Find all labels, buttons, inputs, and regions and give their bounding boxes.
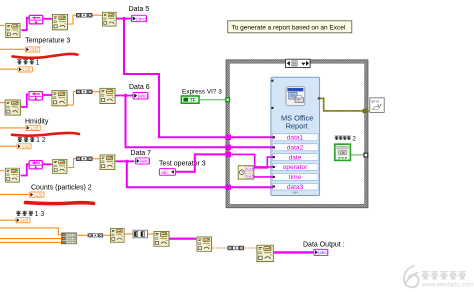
express VI row data2	[272, 144, 318, 152]
label 平均值1 3	[16, 211, 44, 218]
wire pink node to VI2 c1	[44, 18, 53, 20]
indicator Data 7	[136, 158, 150, 164]
svg-text:OK: OK	[340, 151, 346, 155]
indicator 平均值1	[18, 67, 33, 72]
wire xtrio B to VI7	[244, 247, 257, 249]
wire into VI1 c2	[0, 102, 5, 104]
wire VI1 to pink node c1	[21, 18, 28, 30]
indicator 平均值1 3	[16, 218, 30, 223]
free label: To generate a report based on an Excel	[228, 21, 352, 33]
magenta tunnel operator	[225, 152, 231, 157]
error wire junction on border	[363, 109, 368, 114]
indicator Hmidity	[26, 125, 41, 130]
wire into VI1 c3	[0, 170, 4, 172]
indicator Temperature 3	[25, 47, 40, 52]
wire Express VI? to tunnel (green)	[199, 99, 226, 101]
express VI row date	[272, 154, 318, 162]
VI icon bottom 4	[110, 228, 124, 242]
wire VI2 to xtrio c2	[68, 92, 77, 105]
multiply trio bottom A	[88, 233, 104, 237]
VI icon bottom 5	[154, 231, 169, 246]
build array node	[61, 233, 76, 244]
VI icon bottom 6	[197, 237, 212, 252]
wire pink node to VI2 c3	[43, 163, 52, 165]
OK button terminal	[335, 144, 351, 160]
VI icon c2-1	[5, 100, 20, 115]
wire xtrio to VI3 c2	[93, 91, 100, 93]
pink convert node c1	[29, 15, 43, 24]
svg-text:data2: data2	[287, 145, 304, 152]
wire VI5 to VI6 (magenta)	[170, 238, 197, 240]
wire into indicator h1	[0, 127, 25, 129]
indicator Counts	[30, 192, 45, 197]
svg-text:Counts (particles) 2: Counts (particles) 2	[31, 185, 92, 192]
express VI row data1	[272, 134, 318, 142]
OK button label 确定按钮 2	[335, 136, 357, 143]
label 平均值1	[17, 59, 39, 66]
wire Data 5 to data1 terminal	[124, 19, 273, 138]
wire VI3 to Data 7 indicator	[116, 160, 135, 162]
indicator Data 5	[132, 15, 147, 21]
multiply trio c3	[76, 157, 93, 161]
red scribble 3	[26, 203, 94, 204]
svg-text:Report: Report	[286, 121, 308, 130]
express VI edge terminals	[271, 80, 320, 109]
svg-text:data3: data3	[287, 184, 304, 191]
svg-text:Express VI? 3: Express VI? 3	[182, 89, 222, 96]
svg-text:2: 2	[352, 136, 356, 143]
svg-text:error: error	[371, 100, 379, 104]
express VI row data3	[272, 183, 318, 191]
get date/time node	[238, 166, 255, 179]
wire time (node bottom out to time terminal)	[254, 176, 273, 178]
svg-text:Data 7: Data 7	[130, 150, 151, 157]
express VI row time	[272, 173, 318, 181]
OK wire tunnel on right border	[363, 153, 368, 158]
pink convert node c2	[29, 92, 43, 101]
wire bottom 1	[0, 228, 61, 235]
wire xtrio to VI3 c1	[93, 14, 103, 16]
wire VI2 to xtrio c1	[68, 15, 76, 24]
wire xtrio to VI4	[103, 234, 110, 236]
wire bottom 3	[0, 241, 61, 243]
wire VI1 to pink node c2	[21, 95, 28, 108]
wire date (node top out to date terminal)	[254, 157, 273, 168]
terminal dots on express rows	[273, 136, 275, 187]
wire build array to xtrio	[77, 234, 87, 236]
wire into VI1 c1	[0, 25, 5, 27]
junction Data 5	[122, 17, 125, 20]
magenta tunnel data1	[225, 135, 231, 140]
wire into indicator 平均值1	[0, 68, 18, 70]
svg-text:TF: TF	[190, 98, 196, 104]
svg-text:www.elecfans.com: www.elecfans.com	[421, 282, 473, 289]
svg-text:date: date	[289, 154, 302, 161]
VI icon c2-2	[52, 91, 67, 106]
VI icon c3-3	[100, 155, 115, 170]
svg-text:1 3: 1 3	[35, 211, 45, 218]
indicator 平均值1 2	[17, 144, 31, 149]
svg-text:Hmidity: Hmidity	[25, 119, 49, 126]
wire Data 6 to data2 terminal	[126, 96, 274, 148]
indicator Data 6	[133, 93, 148, 100]
green tunnel on left border	[225, 97, 230, 102]
wire into indicator 平均值1 3	[0, 219, 15, 221]
wire striped to VI5	[148, 233, 154, 235]
multiply trio bottom B	[228, 246, 245, 250]
wire pink node to VI2 c2	[43, 94, 51, 96]
number-to-string striped node	[133, 230, 147, 238]
wire Data 7 to data3 terminal	[127, 161, 273, 187]
express VI title	[281, 114, 313, 131]
wire Test operator to operator tunnel	[175, 154, 226, 171]
svg-text:Data 6: Data 6	[129, 84, 150, 91]
svg-text:To generate a report based on: To generate a report based on an Excel	[232, 24, 346, 31]
svg-text:%H:%: %H:%	[246, 174, 255, 178]
svg-text:Data Output :: Data Output :	[303, 241, 345, 248]
wire VI4 to striped node	[125, 233, 133, 235]
pink convert node c3	[29, 161, 42, 169]
VI icon c3-1	[5, 168, 19, 182]
svg-text:data1: data1	[287, 135, 304, 142]
multiply trio c2	[76, 90, 93, 94]
svg-text:%d:%: %d:%	[246, 167, 255, 171]
label 平均值1 2	[18, 137, 46, 144]
wire VI1 to pink node c3	[21, 164, 29, 175]
event structure border	[226, 60, 368, 208]
junction Data 6	[124, 94, 127, 97]
svg-text:time: time	[289, 174, 302, 181]
VI icon c1-1	[6, 23, 20, 37]
string control Test operator	[159, 169, 175, 176]
magenta tunnel data2	[225, 145, 231, 150]
svg-text:1: 1	[36, 59, 40, 66]
wire VI3 to Data 5 indicator	[117, 18, 132, 20]
event selector	[286, 59, 311, 67]
OK button wire (green)	[351, 154, 364, 156]
VI icon bottom 7	[257, 245, 273, 261]
error handler VI	[370, 98, 384, 113]
svg-text:abc: abc	[161, 170, 169, 175]
red scribble 2	[12, 133, 79, 136]
MS Office Report express VI box	[271, 77, 320, 195]
VI icon c2-3	[100, 88, 115, 103]
watermark 电子发烧友	[422, 272, 466, 279]
wire xtrio to VI3 c3	[93, 158, 100, 160]
express VI row operator	[272, 163, 318, 171]
svg-text:Temperature 3: Temperature 3	[25, 38, 70, 45]
wire VI6 to xtrio B	[212, 247, 227, 249]
red scribble 1	[13, 54, 78, 58]
wire into indicator 平均值1 2	[0, 145, 17, 147]
wire VI3 to Data 6 indicator	[116, 95, 133, 97]
svg-text:Data 5: Data 5	[129, 6, 150, 13]
wire operator (tunnel to operator terminal)	[231, 154, 273, 167]
wire VI2 to xtrio c3	[68, 159, 76, 168]
wire into indicator counts	[0, 193, 29, 195]
multiply trio c1	[76, 13, 93, 17]
wire bottom 2	[0, 238, 61, 240]
VI icon c1-2	[52, 15, 67, 30]
svg-text:operator: operator	[283, 164, 308, 171]
magenta tunnel data3	[225, 185, 231, 190]
watermark swirl logo	[404, 266, 419, 288]
boolean control Express VI? 3	[181, 96, 199, 104]
wire into indicator t1	[0, 48, 25, 50]
indicator Data Output	[314, 249, 328, 255]
svg-text:1 2: 1 2	[36, 137, 46, 144]
error wire (olive)	[320, 98, 369, 111]
VI icon c1-3	[102, 12, 116, 26]
VI icon c3-2	[53, 159, 67, 173]
express VI bottom glyph	[292, 192, 297, 193]
junction Data 7	[125, 160, 128, 163]
express VI icon	[286, 87, 305, 106]
svg-text:Test operator 3: Test operator 3	[159, 160, 206, 167]
wire VI7 to Data Output	[274, 251, 314, 253]
